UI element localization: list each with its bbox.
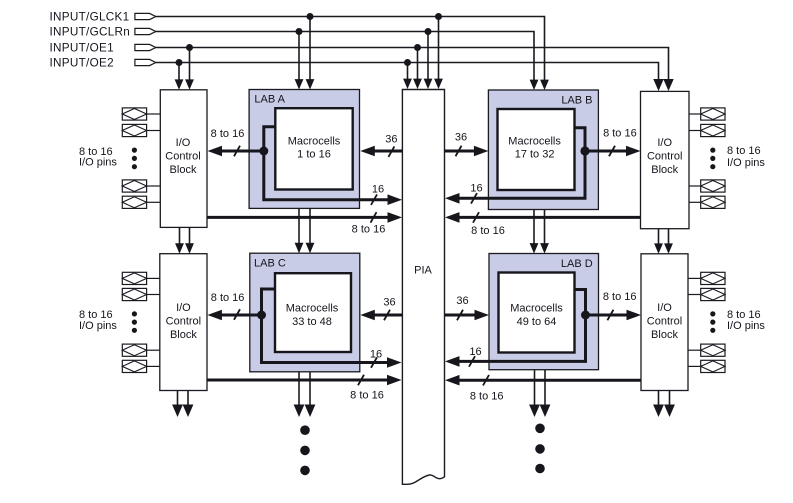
slash on D right bus [607, 310, 613, 321]
LAB C macrocell box [275, 273, 351, 352]
left IO to PIA row bus [207, 216, 390, 219]
wire row 3 horizontal [156, 48, 669, 83]
svg-text:36: 36 [385, 133, 397, 145]
arrowheads into LAB A top [295, 79, 304, 89]
ellipsis dots below LAB C [300, 425, 310, 475]
svg-text:I/O: I/O [176, 137, 191, 149]
wires upper IO right to lower IO right [658, 229, 660, 245]
wire drop to left IO from row 4 [178, 63, 180, 81]
arrowheads below LAB C [294, 405, 305, 418]
wire drop to PIA from row 3 [417, 48, 419, 81]
io pin 3 [122, 344, 160, 356]
io pin 1 [122, 272, 160, 284]
arrowheads below lower right IO [653, 405, 664, 418]
svg-text:8 to 16: 8 to 16 [603, 291, 637, 303]
svg-text:Macrocells: Macrocells [508, 136, 561, 148]
svg-text:Control: Control [165, 151, 200, 163]
LAB D to right IO bus [586, 314, 630, 317]
wire row 4 horizontal [156, 63, 659, 83]
svg-text:I/O pins: I/O pins [727, 157, 765, 169]
arrowhead right into PIA (16 from A) [388, 194, 403, 205]
svg-text:8 to 16: 8 to 16 [211, 292, 245, 304]
right top IO pin group [689, 108, 725, 208]
LAB A box [249, 90, 359, 209]
slash on C 16 bus [371, 357, 377, 368]
input pin symbol row 1 [135, 13, 156, 19]
junction dot row1 x310 [307, 13, 314, 20]
svg-text:8 to 16: 8 to 16 [471, 225, 505, 237]
svg-text:8 to 16: 8 to 16 [350, 389, 384, 401]
wires below lower IO right [658, 391, 660, 409]
io pins ellipsis [710, 311, 715, 333]
svg-text:PIA: PIA [414, 265, 432, 277]
slash on B right bus [609, 146, 615, 157]
io pin 3 [689, 180, 725, 192]
slash on A 16 bus [371, 194, 377, 205]
input pin symbol row 3 [135, 44, 156, 50]
right bottom IO pin group [688, 272, 725, 372]
svg-text:8 to 16: 8 to 16 [470, 391, 504, 403]
io pin 2 [689, 124, 725, 136]
io pins ellipsis [132, 311, 137, 333]
arrowhead left into left IO (8 to 16) [208, 146, 223, 157]
svg-text:I/O pins: I/O pins [727, 320, 765, 332]
svg-text:17 to 32: 17 to 32 [515, 149, 555, 161]
svg-text:36: 36 [383, 296, 395, 308]
svg-text:Control: Control [166, 316, 201, 328]
arrowheads into LAB B top [530, 80, 539, 90]
arrowhead right into PIA (8 to 16 row A) [388, 212, 403, 223]
LAB A macrocell box [275, 108, 352, 189]
arrowhead right into lower right IO (8 to 16) [627, 310, 642, 321]
input row labels [50, 11, 131, 70]
wire row 1 horizontal [156, 17, 545, 81]
arrowheads into right IO top [653, 79, 663, 91]
arrowheads into left IO top [175, 79, 184, 89]
io pin 2 [122, 124, 160, 136]
LAB D feedback path [457, 290, 586, 362]
wire drop to PIA from row 2 [427, 32, 429, 81]
io pins ellipsis [132, 148, 137, 170]
left bottom IO pin group [122, 272, 160, 372]
svg-text:LAB B: LAB B [561, 95, 592, 107]
slash on B 16 bus [471, 193, 477, 204]
arrowhead right into PIA (8 to 16 row C) [387, 375, 402, 386]
LAB C feedback path [262, 289, 390, 363]
io pin 1 [689, 108, 725, 120]
slash on B 36 bus [456, 146, 462, 157]
arrowhead right into right IO (8 to 16) [626, 146, 641, 157]
io pin 3 [688, 344, 725, 356]
arrowhead left at LAB C right (36) [360, 310, 375, 321]
svg-text:INPUT/OE1: INPUT/OE1 [50, 42, 114, 55]
LAB C to left IO bus [219, 314, 262, 317]
wires below LAB D [534, 370, 536, 408]
svg-text:LAB C: LAB C [254, 258, 286, 270]
svg-text:Macrocells: Macrocells [288, 136, 341, 148]
arrowheads into LAB C top [295, 243, 304, 253]
arrowheads below LAB D [529, 405, 540, 418]
arrowhead left into PIA (16 from B) [445, 193, 460, 204]
io pin 4 [688, 360, 725, 372]
arrowheads below lower left IO [172, 405, 183, 418]
svg-text:49 to 64: 49 to 64 [517, 316, 557, 328]
io pin 4 [122, 360, 160, 372]
wires below lower IO left [177, 391, 179, 409]
svg-text:INPUT/GLCK1: INPUT/GLCK1 [50, 11, 130, 24]
arrowhead right at LAB B left (36) [474, 146, 489, 157]
svg-text:16: 16 [370, 349, 382, 361]
wires below LAB C [298, 372, 300, 408]
LAB B feedback path [457, 128, 585, 199]
wire drop to left IO from row 3 [189, 48, 191, 81]
slash on B row bus [473, 212, 479, 223]
wires LAB B to LAB D [533, 210, 535, 245]
I/O control block top-right [641, 91, 690, 228]
arrowhead left into PIA (8 to 16 row B) [445, 212, 460, 223]
io pin 2 [122, 288, 160, 300]
junction dot row2 x299 [296, 28, 303, 35]
LAB B to right IO bus [585, 150, 630, 153]
wires LAB A to LAB C [298, 208, 300, 244]
junction dot row3 x189.5 [186, 44, 193, 51]
svg-text:8 to 16: 8 to 16 [727, 145, 761, 157]
svg-text:Control: Control [647, 316, 682, 328]
slash on C 36 bus [384, 310, 390, 321]
svg-text:8 to 16: 8 to 16 [211, 128, 245, 140]
wire drop to PIA from row 4 [407, 63, 409, 81]
lower right IO to PIA row bus [457, 379, 641, 382]
PIA column [402, 90, 444, 485]
slash on A left bus [234, 146, 240, 157]
slash on C left bus [234, 309, 240, 320]
svg-text:LAB D: LAB D [561, 258, 593, 270]
svg-text:I/O: I/O [657, 137, 672, 149]
feedback node dot LAB B [580, 146, 589, 155]
wire drop to LAB A from row 1 [309, 17, 311, 81]
svg-text:INPUT/GCLRn: INPUT/GCLRn [50, 26, 131, 39]
slash on A row bus [371, 212, 377, 223]
arrowheads into lower left IO top [175, 243, 184, 253]
LAB B box [488, 90, 598, 210]
junction dot row3 x417.5 [414, 44, 421, 51]
svg-text:16: 16 [469, 346, 481, 358]
arrowheads into LAB D top [530, 243, 539, 253]
junction dot row4 x407.5 [404, 59, 411, 66]
arrowhead left into PIA (8 to 16 row D) [445, 375, 460, 386]
PIA to LAB C 36 bus [372, 314, 402, 317]
feedback node dot LAB D [581, 311, 590, 320]
lower left IO to PIA row bus [207, 379, 390, 382]
svg-text:36: 36 [455, 131, 467, 143]
slash on D 36 bus [457, 310, 463, 321]
I/O control block top-left [160, 90, 207, 228]
PIA to LAB A 36 bus [372, 150, 402, 153]
LAB A feedback path [264, 127, 390, 200]
left top IO pin group [122, 108, 160, 208]
arrowhead right at LAB D left (36) [475, 310, 490, 321]
svg-text:16: 16 [470, 182, 482, 194]
svg-text:I/O pins: I/O pins [79, 156, 117, 168]
junction dot row2 x428 [425, 28, 432, 35]
PIA to LAB B 36 bus [445, 150, 477, 153]
svg-text:16: 16 [372, 184, 384, 196]
feedback node dot LAB C [257, 311, 266, 320]
LAB A to left IO bus [219, 150, 264, 153]
svg-text:LAB A: LAB A [254, 93, 285, 105]
slash on A 36 bus [388, 146, 394, 157]
io pin 3 [122, 180, 160, 192]
wire row 2 horizontal [156, 32, 534, 81]
slash on C row bus [358, 375, 364, 386]
svg-text:Block: Block [651, 164, 678, 176]
svg-text:Block: Block [651, 329, 678, 341]
io pin 2 [688, 288, 725, 300]
ellipsis dots below LAB D [535, 424, 545, 474]
input pin symbol row 4 [135, 59, 156, 65]
wire drop to LAB A from row 2 [298, 32, 300, 81]
arrowhead right into PIA (16 from C) [387, 357, 402, 368]
PIA to LAB D 36 bus [445, 314, 478, 317]
arrowheads into PIA top [403, 79, 412, 89]
svg-text:Macrocells: Macrocells [286, 303, 339, 315]
svg-text:8 to 16: 8 to 16 [352, 224, 386, 236]
wire drop to PIA from row 1 [438, 17, 440, 81]
svg-text:Block: Block [170, 164, 197, 176]
svg-text:I/O: I/O [176, 302, 191, 314]
right IO to PIA row bus [457, 216, 641, 219]
svg-text:I/O: I/O [657, 302, 672, 314]
io pin 4 [122, 196, 160, 208]
svg-text:36: 36 [456, 295, 468, 307]
svg-text:I/O pins: I/O pins [79, 320, 117, 332]
I/O control block bottom-right [641, 254, 688, 391]
io pins ellipsis [710, 148, 715, 170]
LAB D box [489, 254, 599, 370]
arrowheads into lower right IO top [654, 243, 663, 253]
LAB B macrocell box [498, 109, 575, 190]
junction dot row1 x438.5 [435, 13, 442, 20]
arrowhead left into PIA (16 from D) [445, 356, 460, 367]
LAB D macrocell box [499, 273, 575, 353]
io pin 4 [689, 196, 725, 208]
slash on D row bus [483, 375, 489, 386]
arrowhead left into lower left IO (8 to 16) [207, 310, 222, 321]
svg-text:Macrocells: Macrocells [510, 303, 563, 315]
svg-text:1 to 16: 1 to 16 [297, 149, 331, 161]
svg-text:33 to 48: 33 to 48 [292, 316, 332, 328]
svg-text:Block: Block [170, 329, 197, 341]
junction dot row4 x179 [176, 59, 183, 66]
LAB C box [250, 253, 360, 372]
io pin 1 [688, 272, 725, 284]
svg-text:Control: Control [647, 151, 682, 163]
io pin 1 [122, 108, 160, 120]
feedback node dot LAB A [259, 147, 268, 156]
input pin symbol row 2 [135, 28, 156, 34]
I/O control block bottom-left [160, 254, 207, 391]
slash on D 16 bus [469, 356, 475, 367]
wires upper IO left to lower IO left [179, 227, 181, 244]
svg-text:INPUT/OE2: INPUT/OE2 [50, 57, 114, 70]
arrowhead left at LAB A right (36) [360, 146, 375, 157]
svg-text:8 to 16: 8 to 16 [603, 128, 637, 140]
